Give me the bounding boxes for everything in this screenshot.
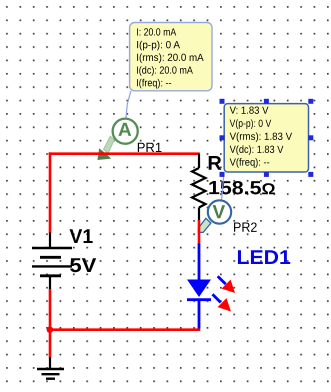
tooltip box PR1 readings [130, 23, 212, 91]
svg-text:V(rms): 1.83 V: V(rms): 1.83 V [230, 132, 293, 143]
wire: left vertical from top corner to battery plus [49, 152, 52, 233]
svg-text:I: 20.0 mA: I: 20.0 mA [136, 28, 176, 39]
probe PR1 ammeter circle [113, 119, 138, 144]
node junction [47, 326, 54, 333]
svg-text:V: V [213, 202, 226, 223]
probe PR2 voltmeter circle [208, 200, 231, 223]
wire: resistor to LED (red segment) [198, 220, 201, 245]
svg-text:I(rms): 20.0 mA: I(rms): 20.0 mA [136, 53, 203, 64]
probe PR1 leader line [126, 91, 131, 119]
tooltip box PR2 readings [224, 104, 308, 172]
svg-text:R: R [207, 153, 222, 175]
svg-text:I(p-p): 0 A: I(p-p): 0 A [136, 40, 180, 51]
svg-text:LED1: LED1 [236, 247, 290, 269]
svg-text:A: A [118, 120, 132, 141]
LED emission arrow 1 [218, 276, 235, 293]
ground [37, 358, 64, 379]
svg-text:V1: V1 [69, 226, 93, 248]
svg-text:PR2: PR2 [233, 220, 257, 235]
selection handles of PR2 box [220, 99, 314, 177]
svg-text:V(p-p): 0 V: V(p-p): 0 V [230, 119, 272, 130]
probe PR1 arrow (under wire) [97, 136, 114, 160]
svg-text:V(freq): --: V(freq): -- [230, 158, 270, 169]
svg-text:V(dc): 1.83 V: V(dc): 1.83 V [230, 145, 284, 156]
wire: bottom horizontal to LED [50, 328, 200, 331]
wire: junction down to ground [49, 330, 52, 358]
svg-text:158.5: 158.5 [208, 178, 262, 199]
svg-text:PR1: PR1 [137, 140, 162, 155]
probe PR2 handle (under wire) [198, 218, 211, 232]
svg-text:5V: 5V [69, 255, 97, 277]
resistor R [192, 154, 206, 221]
svg-text:I(freq): --: I(freq): -- [136, 78, 171, 89]
wire: top horizontal from battery to resistor [49, 152, 200, 155]
LED emission arrow 2 [213, 294, 232, 311]
LED LED1 [187, 244, 211, 329]
svg-text:V: 1.83 V: V: 1.83 V [230, 106, 269, 117]
svg-text:I(dc): 20.0 mA: I(dc): 20.0 mA [136, 66, 193, 77]
probe PR2 leader line [222, 172, 224, 200]
wire: battery minus down to junction [49, 289, 52, 330]
battery V1 [32, 233, 72, 291]
svg-text:Ω: Ω [261, 181, 275, 198]
